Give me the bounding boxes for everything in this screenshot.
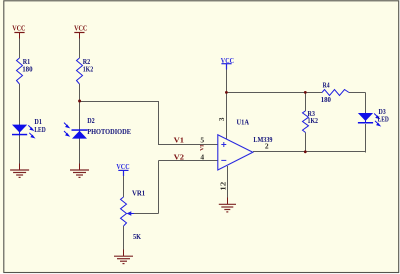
svg-text:VCC: VCC <box>74 24 87 33</box>
svg-text:V1: V1 <box>174 135 185 144</box>
svg-text:V2: V2 <box>174 152 185 161</box>
svg-text:1K2: 1K2 <box>83 65 94 74</box>
svg-text:12: 12 <box>218 182 227 191</box>
svg-text:D2: D2 <box>87 116 95 125</box>
svg-text:VI: VI <box>199 145 205 151</box>
svg-text:VCC: VCC <box>221 56 234 65</box>
svg-text:LED: LED <box>34 125 46 134</box>
svg-text:PHOTODIODE: PHOTODIODE <box>87 127 131 136</box>
svg-text:1K2: 1K2 <box>308 116 319 125</box>
svg-text:3: 3 <box>217 117 226 121</box>
svg-text:180: 180 <box>321 95 331 104</box>
svg-text:LED: LED <box>378 114 390 123</box>
svg-text:VR1: VR1 <box>132 189 145 198</box>
svg-text:R4: R4 <box>323 80 330 89</box>
svg-text:LM339: LM339 <box>253 135 272 144</box>
svg-text:VCC: VCC <box>116 162 129 171</box>
svg-text:5K: 5K <box>133 232 141 241</box>
svg-text:VCC: VCC <box>12 24 25 33</box>
svg-text:4: 4 <box>200 152 204 161</box>
svg-text:5: 5 <box>200 135 204 144</box>
svg-text:180: 180 <box>22 65 33 74</box>
svg-text:U1A: U1A <box>237 117 250 126</box>
